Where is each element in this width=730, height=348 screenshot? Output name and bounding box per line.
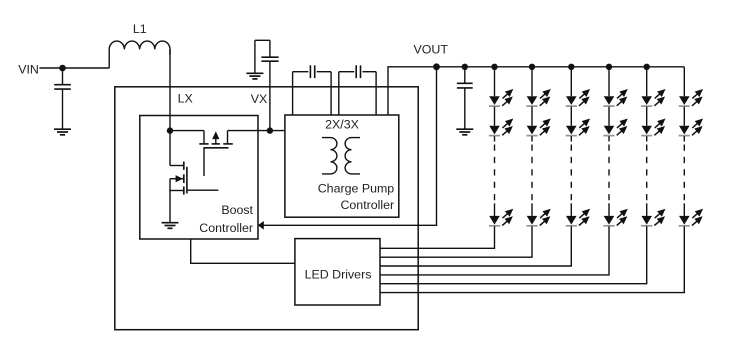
svg-text:LX: LX: [178, 92, 193, 106]
wire L1 to LX: [169, 49, 171, 130]
flying capacitor C2: [339, 65, 376, 115]
wire D1b to dashed segment: [494, 136, 496, 141]
svg-text:LED Drivers: LED Drivers: [305, 267, 372, 281]
wire dashed continuation string 5: [646, 145, 648, 201]
wire rail to LED D5a: [646, 67, 648, 96]
LED D5a: [641, 88, 666, 107]
LED string 1: [380, 64, 514, 249]
LED string 3: [380, 64, 590, 266]
wire VIN: [39, 67, 109, 69]
wire D6a to D6b: [683, 107, 685, 126]
wire rail to LED D1a: [494, 67, 496, 96]
wire dashed segment to LED D6c: [683, 203, 685, 216]
node VX: [267, 127, 273, 133]
wire D2b to dashed segment: [531, 136, 533, 141]
wire D1a to D1b: [494, 107, 496, 126]
wire dashed continuation string 2: [531, 145, 533, 201]
node string 1 anode junction: [491, 64, 497, 70]
LED D1c: [489, 208, 514, 227]
capacitor C_VX (flying cap at VX): [255, 40, 279, 130]
wire dashed segment to LED D3c: [570, 203, 572, 216]
node output cap junction: [462, 64, 468, 70]
wire dashed segment to LED D4c: [608, 203, 610, 216]
ground (boost switch source): [162, 223, 179, 229]
wire boost controller to LED drivers: [191, 239, 295, 263]
svg-text:Controller: Controller: [199, 221, 253, 235]
LED D6c: [679, 208, 704, 227]
ground (VX cap): [246, 73, 263, 79]
wire D5b to dashed segment: [646, 136, 648, 141]
boost controller box: [140, 116, 258, 240]
wire charge-pump output to VOUT rail: [388, 67, 684, 115]
svg-text:2X/3X: 2X/3X: [325, 118, 359, 132]
charge pump controller box: [285, 115, 399, 217]
wire D3a to D3b: [570, 107, 572, 126]
node string 3 anode junction: [568, 64, 574, 70]
IC boundary box: [115, 87, 418, 330]
node string 2 anode junction: [529, 64, 535, 70]
svg-text:VIN: VIN: [18, 62, 39, 76]
svg-text:Controller: Controller: [340, 198, 394, 212]
svg-text:VOUT: VOUT: [414, 43, 449, 57]
transistor Q2 (synchronous rectifier FET): [199, 131, 233, 176]
wire VOUT feedback to boost controller: [263, 67, 437, 226]
LED D4a: [603, 88, 628, 107]
node string 5 anode junction: [644, 64, 650, 70]
LED drivers box: [295, 239, 380, 305]
svg-text:Boost: Boost: [221, 203, 253, 217]
node string 4 anode junction: [606, 64, 612, 70]
wire string 6 cathode return to LED driver: [380, 226, 684, 292]
LED D5b: [641, 118, 666, 137]
LED string 6: [380, 67, 703, 293]
wire D2a to D2b: [531, 107, 533, 126]
wire dashed segment to LED D5c: [646, 203, 648, 216]
wire rail to LED D6a: [683, 67, 685, 96]
LED D5c: [641, 208, 666, 227]
wire dashed continuation string 1: [494, 145, 496, 201]
LED D1a: [489, 88, 514, 107]
wire string 4 cathode return to LED driver: [380, 226, 609, 275]
wire rail to LED D3a: [570, 67, 572, 96]
wire dashed continuation string 6: [683, 145, 685, 201]
LED D1b: [489, 118, 514, 137]
svg-text:VX: VX: [251, 92, 268, 106]
wire Q2 to VX: [228, 130, 285, 132]
transistor Q1 (boost switch NMOS): [170, 131, 218, 223]
node VIN junction: [59, 65, 66, 72]
LED D4c: [603, 208, 628, 227]
capacitor C_OUT: [457, 67, 473, 129]
node LX: [167, 127, 173, 133]
LED D3b: [566, 118, 591, 137]
wire dashed continuation string 4: [608, 145, 610, 201]
wire string 5 cathode return to LED driver: [380, 226, 647, 283]
wire D4b to dashed segment: [608, 136, 610, 141]
wire rail to LED D2a: [531, 67, 533, 96]
wire string 3 cathode return to LED driver: [380, 226, 571, 266]
svg-text:Charge Pump: Charge Pump: [318, 182, 395, 196]
flying capacitor C1: [293, 65, 332, 115]
svg-text:L1: L1: [133, 22, 147, 36]
LED D6b: [679, 118, 704, 137]
LED D2c: [526, 208, 551, 227]
LED D2b: [526, 118, 551, 137]
wire dashed segment to LED D2c: [531, 203, 533, 216]
LED string 4: [380, 64, 628, 275]
capacitor C_IN: [54, 68, 71, 129]
wire dashed segment to LED D1c: [494, 203, 496, 216]
coil winding left: [322, 138, 337, 174]
wire string 1 cathode return to LED driver: [380, 226, 495, 248]
LED D6a: [679, 88, 704, 107]
wire string 2 cathode return to LED driver: [380, 226, 532, 257]
wire D4a to D4b: [608, 107, 610, 126]
inductor L1: [109, 41, 170, 68]
coil winding right: [345, 138, 360, 174]
wire LX to Q2 drain: [170, 130, 204, 132]
LED string 2: [380, 64, 551, 258]
LED D3a: [566, 88, 591, 107]
wire rail to LED D4a: [608, 67, 610, 96]
LED D2a: [526, 88, 551, 107]
ground (output cap): [456, 129, 473, 135]
LED string 5: [380, 64, 666, 284]
wire dashed continuation string 3: [570, 145, 572, 201]
node VOUT: [433, 63, 440, 70]
LED D4b: [603, 118, 628, 137]
ground (input cap): [54, 129, 71, 135]
LED D3c: [566, 208, 591, 227]
arrowhead into boost controller: [258, 221, 264, 230]
wire D5a to D5b: [646, 107, 648, 126]
wire D3b to dashed segment: [570, 136, 572, 141]
wire D6b to dashed segment: [683, 136, 685, 141]
